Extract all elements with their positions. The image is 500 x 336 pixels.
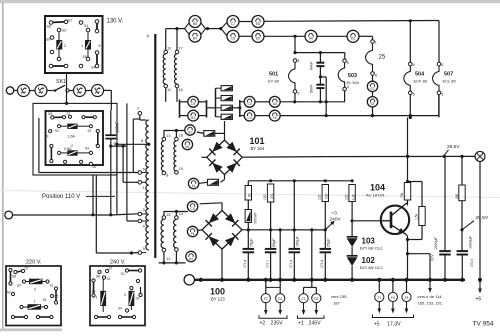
svg-text:+1: +1 (298, 321, 304, 327)
svg-text:2: 2 (34, 288, 36, 292)
svg-text:ECF 80: ECF 80 (414, 79, 428, 84)
svg-text:S9: S9 (7, 291, 11, 295)
svg-text:+2: +2 (260, 321, 266, 327)
svg-text:S2: S2 (17, 284, 21, 288)
svg-text:E4: E4 (371, 102, 375, 106)
svg-text:507: 507 (444, 72, 453, 78)
svg-text:171 c: 171 c (265, 260, 269, 268)
svg-text:D2: D2 (351, 37, 355, 41)
svg-text:S8: S8 (47, 25, 51, 29)
svg-text:B8: B8 (193, 22, 197, 26)
svg-text:S4: S4 (118, 307, 122, 311)
svg-text:75µF: 75µF (250, 238, 254, 247)
svg-text:S7: S7 (67, 112, 71, 116)
svg-text:5: 5 (347, 61, 349, 65)
svg-text:BY 123: BY 123 (211, 297, 225, 302)
svg-text:C4: C4 (248, 116, 252, 120)
svg-text:S4: S4 (85, 147, 89, 151)
svg-text:D2: D2 (314, 297, 318, 301)
svg-text:E6: E6 (256, 37, 260, 41)
svg-text:vers e de 114,: vers e de 114, (418, 294, 443, 299)
svg-text:C4: C4 (248, 102, 252, 106)
svg-text:S2: S2 (62, 29, 66, 33)
svg-text:26,5V: 26,5V (447, 144, 460, 150)
svg-text:235V: 235V (271, 321, 284, 327)
svg-text:T1: T1 (377, 296, 381, 300)
svg-text:5: 5 (297, 92, 299, 96)
svg-text:25µF: 25µF (327, 238, 331, 247)
svg-text:+3: +3 (332, 211, 338, 217)
svg-text:2: 2 (64, 44, 66, 48)
svg-text:vers 155,: vers 155, (331, 294, 347, 299)
svg-text:A2: A2 (188, 130, 192, 134)
svg-text:D1: D1 (278, 297, 282, 301)
svg-text:S1: S1 (84, 24, 88, 28)
svg-text:+5: +5 (374, 322, 380, 328)
svg-text:1: 1 (81, 44, 83, 48)
svg-text:50µF: 50µF (272, 238, 276, 247)
svg-text:S7: S7 (68, 19, 72, 23)
svg-text:501: 501 (269, 72, 278, 78)
svg-text:504: 504 (415, 72, 425, 78)
svg-text:18: 18 (179, 133, 183, 137)
svg-text:S1: S1 (50, 284, 54, 288)
svg-text:S5: S5 (83, 55, 87, 59)
svg-text:100: 100 (210, 287, 225, 297)
svg-text:6: 6 (99, 44, 101, 48)
svg-text:B3: B3 (185, 145, 189, 149)
svg-text:123: 123 (345, 194, 349, 200)
svg-text:BZY 88/ C6,2: BZY 88/ C6,2 (360, 266, 383, 270)
svg-text:14: 14 (179, 212, 183, 216)
svg-text:1: 1 (143, 186, 145, 190)
svg-text:171 b: 171 b (289, 260, 293, 268)
svg-text:25: 25 (379, 55, 386, 61)
svg-text:F4: F4 (391, 296, 395, 300)
svg-text:C6: C6 (231, 37, 235, 41)
svg-text:0,8A: 0,8A (64, 147, 72, 151)
svg-text:A1: A1 (192, 184, 196, 188)
svg-text:C5: C5 (191, 207, 195, 211)
svg-text:F6: F6 (191, 232, 195, 236)
svg-text:503: 503 (348, 73, 357, 79)
svg-text:BZY 88/ C9,1: BZY 88/ C9,1 (360, 246, 383, 250)
svg-text:1: 1 (375, 41, 377, 45)
svg-text:165, 153, 151.: 165, 153, 151. (418, 301, 444, 306)
svg-text:S1: S1 (88, 129, 92, 133)
svg-text:S8: S8 (12, 275, 16, 279)
svg-text:S7: S7 (109, 267, 113, 271)
svg-text:E2: E2 (371, 87, 375, 91)
svg-text:Position 110 V: Position 110 V (42, 194, 80, 200)
svg-text:F5: F5 (405, 296, 409, 300)
svg-text:8: 8 (375, 74, 377, 78)
svg-text:1000µF: 1000µF (469, 235, 473, 249)
svg-text:B1: B1 (191, 116, 195, 120)
svg-text:4: 4 (143, 224, 145, 228)
svg-text:E8: E8 (256, 22, 260, 26)
svg-text:C7: C7 (231, 22, 235, 26)
svg-text:S9: S9 (46, 38, 50, 42)
svg-text:5: 5 (413, 93, 415, 97)
svg-text:370mAT: 370mAT (253, 212, 257, 224)
svg-text:S7: S7 (25, 267, 29, 271)
svg-text:82: 82 (248, 193, 252, 197)
svg-text:190: 190 (325, 193, 329, 199)
svg-text:10: 10 (167, 47, 171, 51)
svg-text:220 V.: 220 V. (26, 260, 42, 266)
svg-text:C1: C1 (301, 297, 305, 301)
svg-text:25,5V: 25,5V (476, 215, 489, 221)
svg-text:103: 103 (362, 237, 376, 246)
svg-text:A4: A4 (189, 257, 193, 261)
svg-text:130 V.: 130 V. (107, 19, 124, 25)
svg-text:S2: S2 (107, 277, 111, 281)
svg-text:1,6A: 1,6A (68, 135, 76, 139)
svg-text:S2: S2 (55, 129, 59, 133)
svg-text:4: 4 (413, 63, 415, 67)
svg-text:5: 5 (143, 247, 145, 251)
svg-text:D4: D4 (191, 102, 195, 106)
svg-text:A4: A4 (273, 102, 277, 106)
svg-text:470: 470 (270, 193, 274, 199)
svg-text:15: 15 (166, 213, 170, 217)
svg-text:245V: 245V (309, 321, 322, 327)
svg-text:120: 120 (263, 194, 267, 200)
svg-text:1: 1 (96, 296, 98, 300)
svg-text:S9: S9 (45, 135, 49, 139)
svg-text:240V: 240V (330, 217, 342, 223)
svg-text:S6: S6 (92, 165, 96, 169)
svg-text:150µF: 150µF (296, 235, 300, 247)
svg-text:180: 180 (455, 193, 459, 199)
svg-text:101: 101 (250, 136, 265, 146)
svg-text:2: 2 (124, 293, 126, 297)
svg-text:56nF: 56nF (310, 84, 314, 93)
svg-text:EY 88: EY 88 (268, 79, 280, 84)
svg-text:8: 8 (166, 173, 168, 177)
svg-text:16: 16 (179, 88, 183, 92)
svg-text:102: 102 (362, 256, 376, 265)
svg-text:1: 1 (34, 300, 36, 304)
svg-text:11: 11 (167, 88, 171, 92)
svg-text:ECL 85: ECL 85 (443, 79, 457, 84)
svg-text:AC 187/01: AC 187/01 (366, 193, 386, 198)
svg-text:1,5k: 1,5k (415, 213, 419, 220)
svg-text:S8: S8 (48, 112, 52, 116)
svg-text:240 V.: 240 V. (110, 260, 126, 266)
svg-text:A6: A6 (309, 37, 313, 41)
svg-text:122: 122 (318, 194, 322, 200)
svg-text:5: 5 (441, 93, 443, 97)
svg-text:10 V: 10 V (431, 254, 435, 261)
svg-text:19: 19 (179, 167, 183, 171)
svg-text:171 d: 171 d (320, 260, 324, 268)
svg-text:17,3V: 17,3V (387, 322, 401, 328)
svg-text:F6: F6 (273, 116, 277, 120)
svg-text:F2: F2 (264, 297, 268, 301)
svg-text:B4: B4 (193, 36, 197, 40)
svg-text:64nF: 64nF (310, 61, 314, 70)
svg-text:1000µF: 1000µF (434, 236, 438, 250)
svg-text:12: 12 (166, 257, 170, 261)
svg-text:S5: S5 (136, 297, 140, 301)
svg-text:4: 4 (297, 59, 299, 63)
svg-text:4: 4 (347, 85, 349, 89)
svg-text:4: 4 (441, 63, 443, 67)
svg-text:5: 5 (143, 168, 145, 172)
svg-text:13: 13 (166, 134, 170, 138)
svg-text:S4: S4 (43, 298, 47, 302)
svg-text:TV 954: TV 954 (473, 321, 494, 328)
svg-text:SK1: SK1 (56, 79, 66, 85)
svg-text:3: 3 (143, 208, 145, 212)
svg-text:+5: +5 (476, 297, 482, 303)
svg-text:187: 187 (333, 301, 340, 306)
svg-text:S4: S4 (91, 66, 95, 70)
svg-text:1,2k: 1,2k (351, 194, 355, 200)
svg-text:S8: S8 (96, 275, 100, 279)
svg-text:75k: 75k (400, 192, 404, 198)
svg-text:17: 17 (179, 47, 183, 51)
svg-text:S1: S1 (121, 272, 125, 276)
svg-text:172 b: 172 b (470, 259, 474, 267)
svg-text:104: 104 (370, 183, 385, 193)
svg-text:100nF: 100nF (115, 121, 120, 133)
svg-text:EL 504: EL 504 (347, 80, 360, 85)
svg-text:BY 164: BY 164 (251, 146, 265, 151)
svg-text:171 a: 171 a (243, 260, 247, 268)
